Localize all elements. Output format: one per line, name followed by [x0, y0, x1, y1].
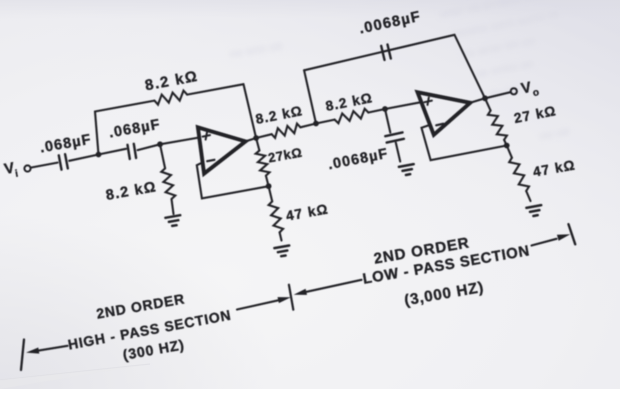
label 2ND ORDER (low-pass) — [372, 234, 470, 267]
label R9 47 kOhm — [532, 157, 577, 179]
wire C4 to ground — [396, 143, 400, 162]
wire node B2 to op-amp U2 +input — [385, 102, 421, 109]
U1 plus input label — [203, 132, 210, 139]
wire riser node A to feedback rail — [95, 112, 99, 155]
label R3 8.2 kOhm — [144, 68, 200, 95]
label C4 .0068uF — [327, 146, 390, 173]
capacitor C3 .0068uF feedback — [381, 45, 391, 60]
node B2 junction — [382, 106, 388, 112]
capacitor C1 .068uF — [59, 154, 68, 169]
wire riser node A2 to feedback rail — [304, 70, 316, 123]
label R4 27kOhm — [267, 145, 304, 166]
node NO output junction — [482, 95, 488, 101]
faint print bleed-through from reverse page — [228, 0, 570, 143]
resistor R4 27k — [256, 138, 270, 186]
label HIGH-PASS SECTION — [67, 307, 233, 353]
label C1 .068uF — [39, 132, 93, 157]
label Vi — [3, 159, 20, 180]
label C3 .0068uF — [358, 9, 423, 38]
wire low-pass dimension line left — [307, 280, 362, 292]
wire rail right corner down to node N1 — [244, 84, 257, 138]
wire low-pass dimension line right — [532, 239, 557, 246]
node Vi input terminal — [24, 165, 30, 171]
node Vo output terminal — [511, 88, 517, 94]
resistor R6 8.2k (stage 2 input) — [256, 124, 316, 139]
node B junction — [157, 141, 163, 147]
resistor R8 27k — [485, 98, 507, 145]
wire high-pass dimension line left — [37, 346, 68, 351]
resistor R7 8.2k (stage 2) — [316, 109, 385, 124]
dimension tick left — [21, 340, 24, 371]
label C2 .068uF — [108, 117, 162, 142]
wire U2 output to node NO — [470, 98, 485, 103]
arrowhead low-pass right — [557, 234, 570, 241]
wire node A to C2 — [99, 149, 127, 155]
dimension tick center — [289, 285, 293, 310]
wire C2 to node B — [138, 144, 160, 150]
wire feedback loop U2 minus — [422, 125, 507, 160]
U2 plus input label — [424, 98, 432, 105]
node A junction — [96, 152, 102, 158]
label R2 8.2 kOhm — [105, 179, 158, 204]
wire stage-2 feedback rail — [304, 35, 454, 71]
ground for R5 — [274, 246, 289, 257]
label R7 8.2 kOhm — [324, 90, 374, 114]
capacitor C4 .0068uF to ground — [385, 132, 404, 142]
label (3,000 HZ) — [403, 279, 485, 309]
arrowhead low-pass left — [294, 289, 307, 295]
label LOW-PASS SECTION — [362, 243, 532, 288]
wire C1 to node A — [69, 155, 98, 161]
wire rail to node NO — [455, 35, 486, 99]
label Vo — [520, 79, 541, 99]
capacitor C2 .068uF — [128, 144, 137, 159]
resistor R2 8.2k to ground (stage 1) — [160, 144, 175, 214]
ground for C4 — [399, 164, 414, 175]
wire node NO to Vo terminal — [485, 92, 510, 98]
resistor R5 47k — [269, 186, 284, 240]
ground for R9 — [526, 205, 541, 216]
label R6 8.2 kOhm — [254, 103, 304, 127]
label R5 47 kOhm — [285, 201, 330, 223]
dimension tick right — [569, 224, 576, 244]
label R8 27 kOhm — [513, 103, 558, 126]
wire Vi to C1 — [31, 163, 58, 168]
arrowhead high-pass left — [26, 348, 39, 354]
wire feedback loop U1 minus — [197, 162, 269, 198]
op-amp U1 — [198, 127, 246, 173]
resistor R3 8.2k feedback (stage 1) — [95, 84, 244, 111]
node A2 junction — [313, 121, 319, 127]
resistor R9 47k — [507, 146, 531, 202]
node N1 stage-1 output junction — [253, 135, 259, 141]
node N2b divider junction — [504, 143, 510, 149]
label 2ND ORDER (high-pass) — [95, 290, 186, 321]
wire high-pass dimension line right — [237, 300, 281, 310]
op-amp U2 — [418, 92, 471, 135]
label (300 HZ) — [122, 337, 186, 364]
wire U1 output to node N1 — [246, 138, 257, 141]
U1 minus input label — [207, 160, 214, 161]
faint paper crease bottom-left — [0, 364, 150, 380]
node N2 divider junction — [266, 183, 272, 189]
ground for R2 — [165, 215, 180, 226]
arrowhead high-pass right — [278, 297, 291, 303]
U2 minus input label — [436, 124, 443, 126]
wire node B2 down to C4 — [385, 109, 390, 133]
wire node B to op-amp U1 +input — [160, 138, 199, 145]
